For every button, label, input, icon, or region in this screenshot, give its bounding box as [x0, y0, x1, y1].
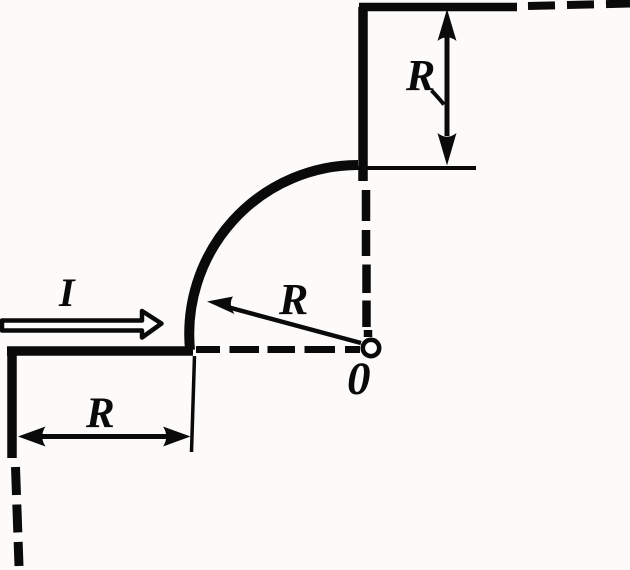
- svg-text:R: R: [85, 390, 115, 437]
- svg-text:R: R: [278, 275, 308, 324]
- dashed construction line: vertical from arc top to O: [366, 190, 368, 337]
- dashed construction line: horizontal from wire junction to O: [196, 346, 360, 353]
- svg-text:0: 0: [347, 353, 371, 405]
- wire: bottom horizontal segment: [7, 346, 193, 356]
- wire: top horizontal dashed continuation: [528, 4, 630, 7]
- node O: small open circle at arc center: [363, 340, 379, 356]
- wire: left vertical dashed continuation: [16, 467, 20, 566]
- wire: quarter-circle arc: [189, 165, 358, 350]
- dimension arrow: vertical top arrowhead: [438, 9, 457, 41]
- dimension arrow: horizontal left arrowhead: [18, 427, 46, 447]
- current arrow: hollow arrow for I: [2, 311, 162, 338]
- svg-text:R: R: [405, 51, 435, 100]
- dimension arrow: horizontal R shaft: [40, 434, 170, 439]
- radius arrow: arrowhead at arc: [207, 297, 235, 315]
- extension line: thin vertical below arc bottom: [192, 356, 195, 452]
- dimension arrow: horizontal right arrowhead: [163, 427, 191, 447]
- wire: top horizontal solid segment: [359, 3, 517, 12]
- wire: left vertical solid segment: [7, 347, 17, 458]
- wire: top vertical segment: [358, 7, 368, 181]
- radius arrow: shaft from O to arc: [220, 305, 361, 343]
- dimension arrow: vertical bottom arrowhead: [438, 133, 457, 166]
- extension line: thin horizontal at arc top: [356, 166, 476, 170]
- dimension arrow: vertical R shaft: [445, 36, 450, 136]
- svg-text:I: I: [58, 270, 76, 315]
- leader line from top R label to arrow: [432, 91, 445, 105]
